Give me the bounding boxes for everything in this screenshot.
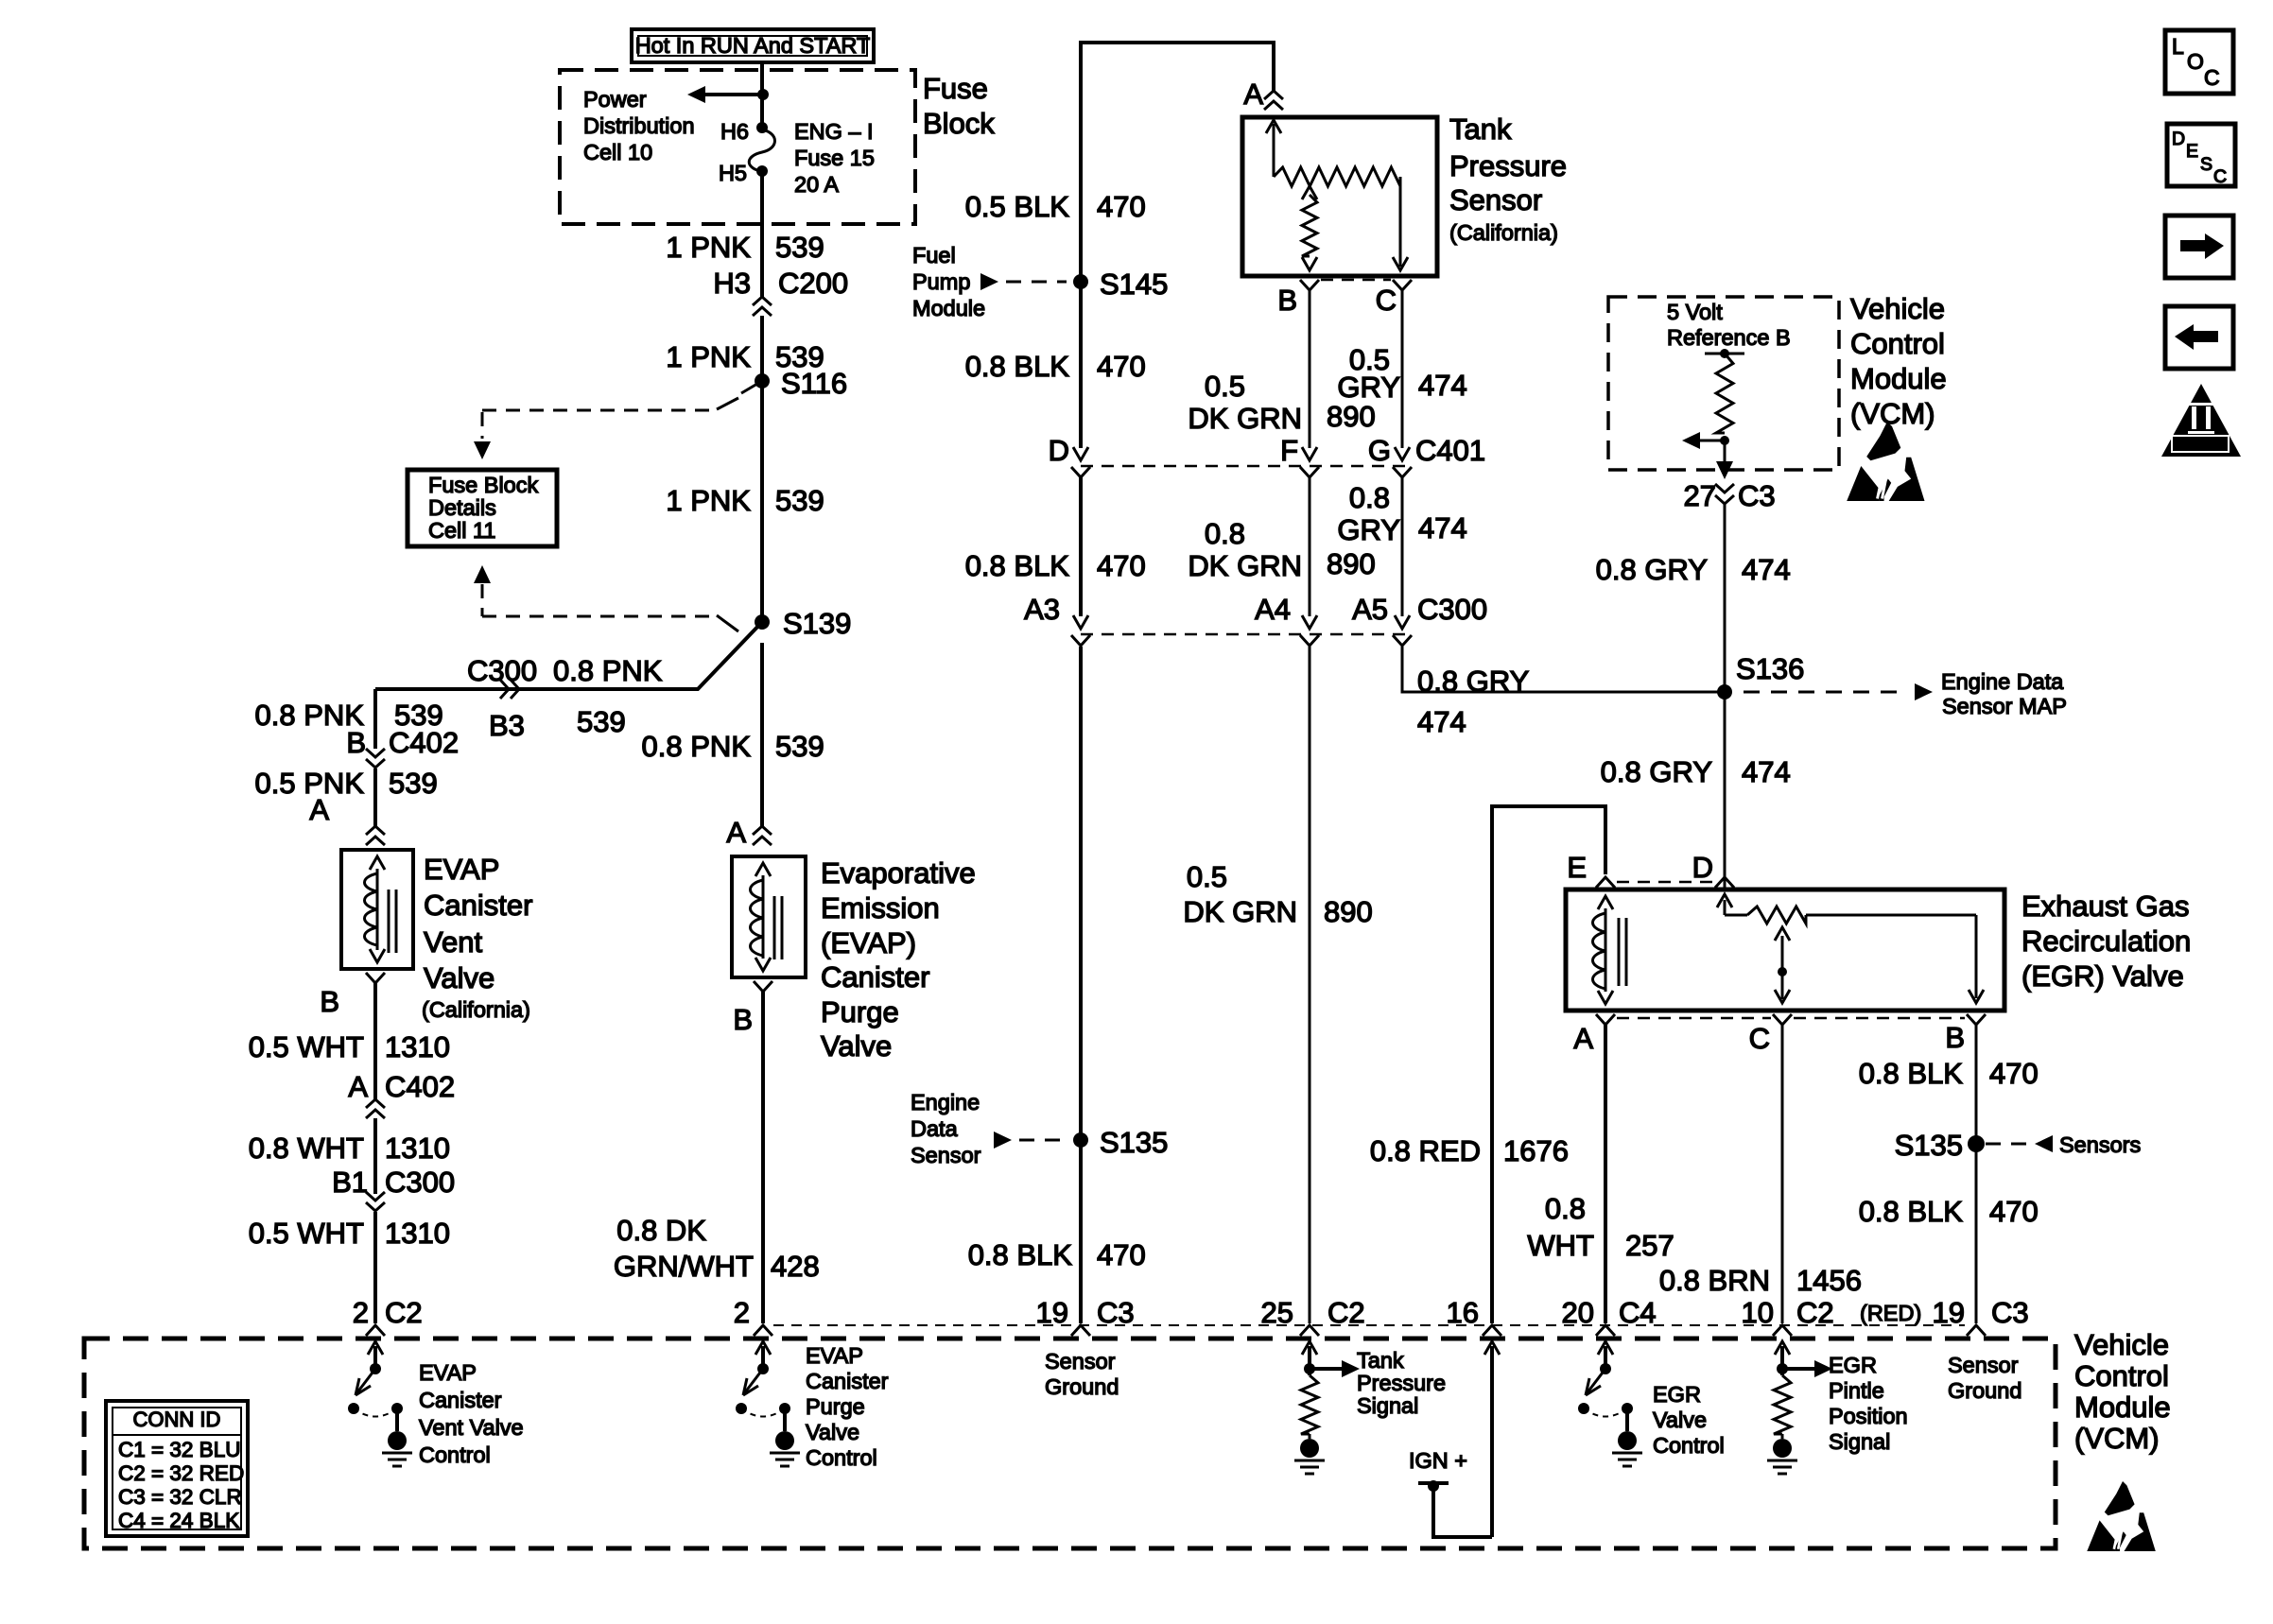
fuse block dashed box: [560, 70, 915, 224]
wire 0.5 WHT 1310 to VCM: [373, 1212, 377, 1323]
svg-text:0.8 RED: 0.8 RED: [1370, 1134, 1481, 1167]
svg-text:C300: C300: [1417, 593, 1487, 626]
vehicle control module 5 volt reference box: [1608, 297, 1839, 470]
svg-text:H3: H3: [713, 267, 751, 300]
svg-text:C402: C402: [385, 1070, 455, 1103]
svg-text:1310: 1310: [385, 1030, 450, 1063]
wire 1 PNK 539 to S139: [760, 381, 764, 622]
svg-text:474: 474: [1742, 755, 1791, 788]
svg-text:Block: Block: [923, 107, 995, 140]
wire 0.8 DK GRN 890: [1309, 477, 1311, 616]
svg-text:L: L: [2172, 34, 2184, 59]
tank pressure sensor: [1242, 117, 1437, 276]
node S136: [1717, 684, 1732, 700]
EVAP purge valve pin B: [754, 981, 772, 992]
svg-text:Fuse 15: Fuse 15: [794, 146, 875, 170]
svg-text:Canister: Canister: [419, 1388, 502, 1412]
svg-text:(EGR) Valve: (EGR) Valve: [2021, 959, 2184, 993]
svg-text:0.8: 0.8: [1205, 517, 1245, 550]
svg-text:0.8 BLK: 0.8 BLK: [965, 549, 1070, 582]
svg-text:(RED): (RED): [1860, 1301, 1921, 1325]
EGR pintle position signal input: [1780, 1346, 1784, 1375]
svg-text:5 Volt: 5 Volt: [1667, 300, 1723, 324]
svg-text:C3: C3: [1738, 479, 1776, 512]
svg-text:Sensor: Sensor: [1045, 1349, 1116, 1373]
svg-text:Recirculation: Recirculation: [2021, 924, 2191, 958]
svg-text:27: 27: [1684, 479, 1716, 512]
svg-text:2: 2: [734, 1296, 750, 1329]
svg-text:EVAP: EVAP: [419, 1360, 477, 1385]
svg-text:20 A: 20 A: [794, 172, 839, 197]
svg-text:1456: 1456: [1796, 1264, 1862, 1297]
svg-text:1310: 1310: [385, 1217, 450, 1250]
svg-text:Tank: Tank: [1357, 1348, 1404, 1373]
svg-text:Sensor: Sensor: [911, 1143, 981, 1167]
EVAP vent valve pin B: [366, 973, 385, 983]
svg-text:0.8: 0.8: [1349, 481, 1390, 514]
wire 0.5 WHT 1310: [373, 983, 377, 1099]
wire 0.8 PNK 539 branch to C300: [375, 622, 762, 689]
svg-text:C: C: [2213, 166, 2227, 187]
ESD symbol bottom: [2105, 1481, 2135, 1515]
wire 0.8 BRN 1456: [1781, 1025, 1784, 1323]
svg-text:Vehicle: Vehicle: [1850, 292, 1945, 325]
svg-text:A5: A5: [1352, 593, 1388, 626]
connector C401 dashed line: [1081, 465, 1406, 468]
svg-text:0.8 BLK: 0.8 BLK: [1859, 1195, 1964, 1228]
node S116: [755, 373, 770, 389]
node S135 sensors: [1968, 1135, 1985, 1152]
svg-text:E: E: [2186, 141, 2198, 162]
svg-text:Position: Position: [1829, 1404, 1908, 1428]
svg-text:539: 539: [775, 231, 824, 264]
svg-text:890: 890: [1324, 895, 1373, 928]
svg-text:19: 19: [1036, 1296, 1068, 1329]
svg-text:A: A: [1573, 1022, 1593, 1055]
wire from hot feed: [760, 62, 764, 126]
svg-text:A: A: [348, 1070, 368, 1103]
svg-text:C402: C402: [389, 726, 459, 759]
svg-text:0.8 GRY: 0.8 GRY: [1601, 755, 1712, 788]
svg-text:EGR: EGR: [1653, 1382, 1701, 1407]
svg-text:1 PNK: 1 PNK: [666, 484, 751, 517]
svg-text:0.5 WHT: 0.5 WHT: [249, 1217, 364, 1250]
svg-text:DK GRN: DK GRN: [1188, 402, 1302, 435]
svg-text:Emission: Emission: [821, 891, 940, 924]
wire 0.5 DK GRN 890: [1309, 290, 1311, 448]
wire 0.8 PNK 539 vent valve feed: [373, 689, 377, 749]
wire: [761, 1346, 765, 1367]
IGN+ feed: [1490, 1346, 1494, 1537]
svg-text:19: 19: [1933, 1296, 1965, 1329]
svg-text:Purge: Purge: [806, 1394, 865, 1419]
svg-text:Control: Control: [1850, 327, 1945, 360]
svg-text:S139: S139: [783, 607, 851, 640]
dashed reference to fuse block details (lower): [474, 565, 491, 583]
wire 0.5 BLK 470 top run: [1081, 43, 1274, 282]
svg-text:A4: A4: [1255, 593, 1291, 626]
connector C300 dashed line: [1081, 633, 1406, 636]
svg-text:Control: Control: [1653, 1433, 1725, 1458]
svg-text:C2: C2: [1796, 1296, 1834, 1329]
wire 0.5 PNK 539: [373, 769, 377, 826]
icon OBD II triangle: [2161, 384, 2241, 457]
wire 0.8 WHT 1310: [373, 1118, 377, 1194]
node junction in fuse block: [757, 89, 769, 100]
svg-text:0.8 PNK: 0.8 PNK: [553, 654, 663, 687]
svg-text:Sensors: Sensors: [2059, 1132, 2141, 1157]
svg-text:0.8 BLK: 0.8 BLK: [1859, 1057, 1964, 1090]
svg-text:539: 539: [577, 705, 626, 738]
fuse ENG-I Fuse 15 20 A: [749, 130, 774, 171]
svg-text:Fuse: Fuse: [923, 72, 988, 105]
svg-text:Sensor: Sensor: [1948, 1353, 2019, 1377]
svg-text:1310: 1310: [385, 1132, 450, 1165]
wire 0.8 BLK 470 EGR B upper: [1975, 1025, 1978, 1323]
svg-text:Sensor: Sensor: [1449, 183, 1542, 216]
svg-text:D: D: [1049, 434, 1069, 467]
wire 1 PNK 539 to S116: [760, 316, 764, 380]
svg-text:C200: C200: [778, 267, 848, 300]
svg-text:890: 890: [1327, 547, 1376, 580]
svg-text:470: 470: [1097, 190, 1146, 223]
wire 0.8 BLK 470 to C300: [1079, 477, 1083, 616]
svg-text:0.5 WHT: 0.5 WHT: [249, 1030, 364, 1063]
svg-text:EVAP: EVAP: [424, 853, 499, 886]
svg-text:C: C: [1376, 284, 1397, 317]
svg-text:C2 = 32 RED: C2 = 32 RED: [118, 1461, 244, 1485]
CONN ID table: [106, 1401, 248, 1536]
svg-text:Canister: Canister: [806, 1369, 889, 1393]
VCM pin same-connector dashed line: [773, 1324, 1965, 1326]
svg-text:C300: C300: [385, 1166, 455, 1199]
svg-text:474: 474: [1417, 705, 1466, 738]
label box Hot In RUN And START: [632, 29, 874, 62]
svg-text:C3: C3: [1097, 1296, 1135, 1329]
svg-text:GRN/WHT: GRN/WHT: [614, 1250, 754, 1283]
tank pressure sensor pins B C: [1300, 280, 1319, 290]
svg-text:Module: Module: [2074, 1391, 2171, 1424]
svg-text:0.8 WHT: 0.8 WHT: [249, 1132, 364, 1165]
vehicle control module VCM dashed box: [84, 1339, 2056, 1548]
svg-text:Data: Data: [911, 1116, 959, 1141]
svg-text:Valve: Valve: [424, 961, 495, 994]
svg-text:Ground: Ground: [1948, 1378, 2021, 1403]
svg-text:S135: S135: [1100, 1126, 1168, 1159]
svg-text:Cell 10: Cell 10: [583, 140, 652, 164]
svg-text:B: B: [733, 1003, 753, 1036]
svg-text:EGR: EGR: [1829, 1353, 1877, 1377]
svg-text:Sensor MAP: Sensor MAP: [1942, 694, 2067, 718]
svg-text:Canister: Canister: [821, 960, 929, 993]
svg-text:Cell 11: Cell 11: [428, 518, 495, 543]
svg-text:H6: H6: [720, 119, 749, 144]
wire: [373, 1346, 377, 1367]
svg-text:Module: Module: [912, 296, 985, 320]
node S139: [755, 614, 770, 630]
svg-text:539: 539: [389, 767, 438, 800]
svg-text:Fuse Block: Fuse Block: [428, 473, 538, 497]
svg-text:(California): (California): [1449, 220, 1558, 245]
svg-text:0.8 GRY: 0.8 GRY: [1417, 665, 1529, 698]
svg-text:0.5 BLK: 0.5 BLK: [965, 190, 1070, 223]
svg-text:Valve: Valve: [806, 1420, 859, 1444]
svg-text:0.8 GRY: 0.8 GRY: [1596, 553, 1708, 586]
svg-text:Pintle: Pintle: [1829, 1378, 1884, 1403]
svg-text:428: 428: [771, 1250, 820, 1283]
svg-text:B: B: [1945, 1021, 1965, 1054]
svg-text:C300: C300: [467, 654, 537, 687]
svg-text:Engine Data: Engine Data: [1941, 669, 2064, 694]
svg-text:Vehicle: Vehicle: [2074, 1328, 2169, 1361]
svg-text:474: 474: [1742, 553, 1791, 586]
svg-text:0.8 BRN: 0.8 BRN: [1659, 1264, 1770, 1297]
evaporative emission canister purge valve: [732, 856, 806, 977]
svg-text:2: 2: [353, 1296, 369, 1329]
svg-text:Control: Control: [2074, 1359, 2169, 1392]
wire 1 PNK 539 below fuse: [760, 171, 764, 297]
svg-text:G: G: [1368, 434, 1391, 467]
svg-text:539: 539: [775, 730, 824, 763]
svg-text:20: 20: [1562, 1296, 1594, 1329]
svg-text:OBD II: OBD II: [2178, 437, 2222, 453]
icon LOC: [2165, 30, 2233, 94]
svg-text:(VCM): (VCM): [1850, 397, 1935, 430]
svg-text:Control: Control: [419, 1443, 491, 1467]
svg-text:Pressure: Pressure: [1357, 1371, 1446, 1395]
svg-text:(California): (California): [422, 997, 530, 1022]
svg-text:C4: C4: [1619, 1296, 1657, 1329]
svg-text:B3: B3: [489, 709, 525, 742]
svg-text:C3: C3: [1991, 1296, 2029, 1329]
svg-text:25: 25: [1261, 1296, 1293, 1329]
ESD symbol top: [1866, 422, 1900, 460]
svg-text:DK GRN: DK GRN: [1183, 895, 1297, 928]
svg-text:Power: Power: [583, 87, 647, 112]
svg-text:0.5: 0.5: [1205, 370, 1245, 403]
svg-text:GRY: GRY: [1337, 371, 1400, 404]
svg-text:Signal: Signal: [1829, 1429, 1890, 1454]
5 volt reference resistor: [1705, 353, 1744, 355]
svg-text:474: 474: [1418, 369, 1467, 402]
svg-text:Signal: Signal: [1357, 1393, 1418, 1418]
svg-text:Canister: Canister: [424, 889, 532, 922]
svg-text:A: A: [1243, 78, 1263, 111]
svg-text:10: 10: [1742, 1296, 1774, 1329]
svg-text:D: D: [1692, 851, 1713, 884]
svg-text:A3: A3: [1024, 593, 1060, 626]
svg-text:Pump: Pump: [912, 269, 970, 294]
wire 0.8 GRY 474 from VCM: [1724, 503, 1726, 890]
svg-text:S116: S116: [781, 367, 847, 400]
svg-text:(EVAP): (EVAP): [821, 926, 916, 959]
svg-text:Fuel: Fuel: [912, 243, 956, 268]
fuse block details callout box: [408, 470, 557, 546]
wire 0.8 GRY 474 to S136: [1402, 647, 1725, 692]
node S135 engine data sensor: [1073, 1132, 1088, 1148]
svg-text:ENG – I: ENG – I: [794, 119, 874, 144]
svg-text:Details: Details: [428, 495, 496, 520]
wire 0.5 GRY 474: [1401, 290, 1404, 448]
svg-text:S145: S145: [1100, 268, 1168, 301]
svg-text:Control: Control: [806, 1445, 877, 1470]
svg-text:H5: H5: [719, 161, 747, 185]
svg-text:E: E: [1567, 851, 1587, 884]
EGR pin dashed line top: [1617, 881, 1713, 884]
svg-text:IGN +: IGN +: [1409, 1448, 1467, 1473]
svg-text:470: 470: [1989, 1057, 2039, 1090]
svg-text:C: C: [1749, 1022, 1770, 1055]
exhaust gas recirculation EGR valve: [1566, 890, 2004, 1011]
dashed reference to fuse block details (upper): [482, 409, 717, 412]
engine data sensor MAP reference: [1744, 691, 1902, 694]
svg-text:Distribution: Distribution: [583, 113, 695, 138]
svg-text:Valve: Valve: [1653, 1408, 1707, 1432]
fuse terminal H5: [756, 165, 768, 177]
svg-text:C401: C401: [1415, 434, 1485, 467]
wire 0.8 WHT 257: [1604, 1025, 1607, 1323]
wire power distribution branch: [703, 93, 763, 96]
svg-text:B: B: [1277, 284, 1297, 317]
svg-text:539: 539: [775, 484, 824, 517]
wire: [1604, 1346, 1607, 1367]
svg-text:16: 16: [1447, 1296, 1479, 1329]
svg-text:EVAP: EVAP: [806, 1343, 863, 1368]
icon arrow left: [2165, 306, 2233, 369]
EVAP canister vent valve: [341, 850, 413, 969]
wire 0.5 DK GRN 890 to VCM: [1309, 647, 1311, 1323]
svg-text:Tank: Tank: [1449, 112, 1512, 146]
svg-text:Purge: Purge: [821, 995, 899, 1028]
svg-text:Valve: Valve: [821, 1029, 892, 1063]
wire 0.8 DK GRN/WHT 428: [761, 992, 765, 1323]
svg-text:S135: S135: [1895, 1129, 1963, 1162]
svg-text:890: 890: [1327, 400, 1376, 433]
svg-text:0.8 DK: 0.8 DK: [616, 1214, 706, 1247]
svg-text:F: F: [1280, 434, 1298, 467]
svg-text:0.8 BLK: 0.8 BLK: [968, 1238, 1073, 1271]
svg-text:0.8 PNK: 0.8 PNK: [642, 730, 752, 763]
svg-text:C: C: [2204, 65, 2220, 90]
svg-text:S136: S136: [1736, 652, 1804, 685]
svg-text:Exhaust Gas: Exhaust Gas: [2021, 890, 2189, 923]
wire 0.8 BLK 470 to S135: [1079, 647, 1083, 1323]
svg-text:GRY: GRY: [1337, 513, 1400, 546]
svg-text:C3 = 32 CLR: C3 = 32 CLR: [118, 1485, 242, 1509]
svg-text:B1: B1: [332, 1166, 368, 1199]
svg-text:Module: Module: [1850, 362, 1947, 395]
svg-text:Vent Valve: Vent Valve: [419, 1415, 524, 1440]
svg-text:0.5: 0.5: [1187, 860, 1227, 893]
icon DESC: [2167, 124, 2235, 186]
svg-text:WHT: WHT: [1527, 1229, 1594, 1262]
svg-text:C1 = 32 BLU: C1 = 32 BLU: [118, 1438, 240, 1461]
node S145: [1073, 274, 1088, 289]
svg-text:D: D: [2172, 129, 2185, 149]
svg-text:C2: C2: [385, 1296, 423, 1329]
svg-text:Pressure: Pressure: [1449, 149, 1567, 182]
svg-text:0.8 BLK: 0.8 BLK: [965, 350, 1070, 383]
svg-text:0.8: 0.8: [1545, 1192, 1586, 1225]
wire 0.8 BLK 470 to C401: [1079, 282, 1083, 448]
svg-text:257: 257: [1625, 1229, 1674, 1262]
svg-text:A: A: [726, 816, 746, 849]
svg-text:(VCM): (VCM): [2074, 1422, 2160, 1455]
tank pressure signal input: [1308, 1346, 1311, 1375]
svg-text:470: 470: [1097, 549, 1146, 582]
svg-text:1676: 1676: [1503, 1134, 1569, 1167]
icon arrow right: [2165, 216, 2233, 278]
svg-text:C2: C2: [1327, 1296, 1365, 1329]
fuse ENG-I terminal H6: [756, 122, 768, 133]
svg-text:474: 474: [1418, 511, 1467, 544]
svg-text:Reference B: Reference B: [1667, 325, 1791, 350]
svg-text:CONN ID: CONN ID: [133, 1408, 221, 1431]
wire 0.8 RED 1676: [1492, 806, 1605, 1323]
svg-text:O: O: [2187, 49, 2204, 74]
wire 0.8 GRY 474 mid: [1401, 477, 1404, 616]
svg-text:Hot In RUN And START: Hot In RUN And START: [635, 33, 871, 58]
svg-text:470: 470: [1989, 1195, 2039, 1228]
svg-text:Ground: Ground: [1045, 1374, 1119, 1399]
svg-text:1 PNK: 1 PNK: [666, 231, 751, 264]
svg-text:B: B: [320, 985, 339, 1018]
svg-text:Vent: Vent: [424, 925, 482, 959]
svg-text:B: B: [346, 726, 366, 759]
svg-text:Evaporative: Evaporative: [821, 856, 976, 890]
svg-text:470: 470: [1097, 350, 1146, 383]
svg-text:S: S: [2200, 154, 2212, 175]
svg-text:DK GRN: DK GRN: [1188, 549, 1302, 582]
svg-text:470: 470: [1097, 1238, 1146, 1271]
svg-text:C4 = 24 BLK: C4 = 24 BLK: [118, 1509, 239, 1532]
svg-text:1 PNK: 1 PNK: [666, 340, 751, 373]
svg-text:A: A: [309, 793, 329, 826]
EGR pins A C B: [1596, 1014, 1615, 1025]
svg-text:Engine: Engine: [911, 1090, 980, 1114]
